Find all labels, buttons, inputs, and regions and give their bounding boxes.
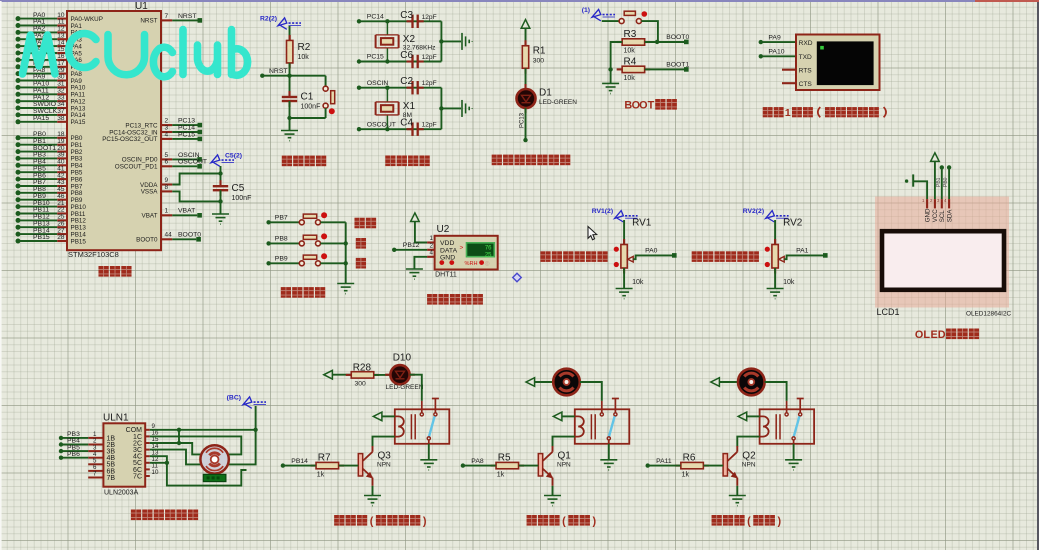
svg-text:): ) xyxy=(423,515,427,527)
node bus dot 2 xyxy=(344,261,348,265)
ground reset circuit xyxy=(281,131,298,141)
svg-text:PB1: PB1 xyxy=(936,177,942,187)
svg-text:8: 8 xyxy=(165,184,169,191)
U1 pin 18 (PB0) net PB0 wire xyxy=(16,131,83,142)
svg-text:(: ( xyxy=(370,515,374,527)
serial screen cursor xyxy=(820,46,824,50)
svg-text:R28: R28 xyxy=(353,363,372,374)
U1 pin 25 (PB12) net PB12 wire xyxy=(16,214,87,225)
wire relay common pin down xyxy=(608,444,610,460)
svg-text:): ) xyxy=(777,515,781,527)
transistor Q3 NPN xyxy=(358,446,373,486)
svg-text:VBAT: VBAT xyxy=(178,208,195,215)
ULN1 pin 13 (4C) xyxy=(133,449,159,460)
svg-text:300: 300 xyxy=(533,58,545,65)
U1 pin 17 (PA7) net PA7 wire xyxy=(16,60,83,71)
U1 pin 30 (PA9) net PA9 wire xyxy=(16,74,83,85)
svg-text:BOOT0: BOOT0 xyxy=(178,232,201,239)
wire PB14 to R7 xyxy=(283,465,316,467)
serial screen black area xyxy=(817,41,874,85)
caption reset circuit xyxy=(282,156,292,167)
wire button to BOOT0 rail xyxy=(641,21,658,42)
U1 pin 45 (PB8) net PB8 wire xyxy=(16,186,83,197)
ground Q3 xyxy=(364,496,381,506)
GND end bar symbol xyxy=(912,174,914,186)
ground Q2 xyxy=(729,496,746,506)
U1 pin 27 (PB14) net PB14 wire xyxy=(16,227,87,238)
wire button to bus xyxy=(320,242,345,244)
motor (vent) M2 xyxy=(738,369,765,396)
caption temperature humidity module xyxy=(427,294,437,305)
node SCL terminal dot xyxy=(940,165,944,169)
svg-text:NPN: NPN xyxy=(377,462,391,469)
svg-text:NRST: NRST xyxy=(178,13,197,20)
svg-text:STM32F103C8: STM32F103C8 xyxy=(68,250,119,259)
ULN1 pin 11 (6C) xyxy=(133,463,158,474)
wire button to bus xyxy=(320,221,345,223)
node C5 top junction xyxy=(218,171,222,175)
svg-text:Q2: Q2 xyxy=(742,450,756,461)
serial window VT terminal body xyxy=(796,35,880,91)
svg-text:>: > xyxy=(460,245,464,252)
wire R3 to BOOT0 terminal xyxy=(645,41,684,43)
relay coil xyxy=(395,416,404,436)
svg-text:U1: U1 xyxy=(135,1,148,12)
ULN1 pin 16 (1C) xyxy=(133,430,159,441)
wire motor 2 to relay pin xyxy=(765,382,787,401)
node PB8 dot xyxy=(266,241,270,245)
caption set xyxy=(354,218,364,229)
RV1 wiper arrow xyxy=(628,256,634,262)
svg-text:LED-GREEN: LED-GREEN xyxy=(539,99,577,106)
wire OLED VCC pin xyxy=(934,161,936,199)
U1 pin 34 (PA13) net SWDIO wire xyxy=(16,101,86,112)
svg-text:RV1: RV1 xyxy=(632,218,652,229)
power arrow DHT11 xyxy=(411,213,420,222)
serial pin stubs RTS CTS xyxy=(782,70,796,84)
svg-text:7: 7 xyxy=(93,471,97,478)
svg-text:(BC): (BC) xyxy=(227,395,241,402)
svg-text:R6: R6 xyxy=(683,453,696,464)
ground relay xyxy=(785,460,802,470)
U1 pin 1 (VBAT) xyxy=(142,208,202,220)
wire 1C to motor right-top xyxy=(150,436,242,454)
U1 pin 37 (PA14) net SWCLK wire xyxy=(16,108,86,119)
RV2 wiper arrow xyxy=(779,256,785,262)
wire arrow to R28 xyxy=(332,374,351,376)
wire R3 left vertical xyxy=(611,42,623,83)
svg-text:100nF: 100nF xyxy=(232,195,252,202)
svg-text:O: O xyxy=(639,99,647,111)
svg-text:R5: R5 xyxy=(498,453,511,464)
main chip U1 STM32F103C8 body xyxy=(67,11,161,250)
svg-text:NPN: NPN xyxy=(742,462,756,469)
window right edge line xyxy=(1037,2,1039,550)
svg-text:OSCOUT: OSCOUT xyxy=(178,159,207,166)
wire probe to RV1 xyxy=(623,220,625,245)
wire PC14 rail xyxy=(359,20,441,22)
svg-text:NRST: NRST xyxy=(269,68,288,75)
svg-text:PA11: PA11 xyxy=(656,458,672,465)
svg-text:PA9: PA9 xyxy=(768,34,781,41)
relay Q3 coil-switch box xyxy=(395,409,450,444)
ground BOOT circuit xyxy=(602,83,619,93)
svg-text:PB0: PB0 xyxy=(943,177,949,187)
svg-text:(: ( xyxy=(747,515,751,527)
caption crystal circuit xyxy=(385,155,395,166)
relay top contact pins xyxy=(787,399,804,413)
OLED screen frame xyxy=(882,231,1004,290)
RV2 red adjust dots xyxy=(765,247,770,252)
wire RV2 to ground xyxy=(774,268,776,289)
node 5C dot xyxy=(165,461,169,465)
ULN1 pin 14 (3C) xyxy=(133,443,159,454)
caption minus xyxy=(356,258,366,269)
U1 pin 28 (PB15) net PB15 wire xyxy=(16,234,87,245)
relay switch blade (cyan) xyxy=(609,416,615,436)
wire arrow to motor xyxy=(535,381,554,383)
svg-text:BOOT0: BOOT0 xyxy=(136,237,158,244)
svg-text:PA15: PA15 xyxy=(71,119,86,126)
U1 pin 16 (PA6) net PA6 wire xyxy=(16,53,83,64)
wire 2C to motor left-top xyxy=(150,443,201,454)
OLED pink module background xyxy=(875,197,1009,308)
push button PB7 xyxy=(299,212,327,225)
node PB7 dot xyxy=(266,220,270,224)
svg-text:1: 1 xyxy=(165,208,169,215)
U1 pin 3 (PC14-OSC32_IN) xyxy=(109,124,202,136)
svg-text:PC15-OSC32_OUT: PC15-OSC32_OUT xyxy=(102,136,157,143)
ULN1 pin 10 (7C) xyxy=(133,469,159,480)
terminal PA1 xyxy=(823,253,828,258)
svg-text:1: 1 xyxy=(430,235,434,242)
svg-text:6: 6 xyxy=(165,159,169,166)
svg-text:32.768KHz: 32.768KHz xyxy=(403,45,436,52)
svg-text:O: O xyxy=(915,329,923,341)
svg-text:R3: R3 xyxy=(624,29,637,40)
node PA11 dot xyxy=(646,463,650,467)
U1 pin 5 (OSCIN_PD0) xyxy=(122,152,202,164)
U1 pin 29 (PA8) net PA8 wire xyxy=(16,67,83,78)
transistor Q1 NPN xyxy=(538,446,553,486)
svg-text:PA0: PA0 xyxy=(645,248,658,255)
svg-text:R1: R1 xyxy=(533,46,546,57)
ULN1 pin 6 (6B) xyxy=(88,464,115,475)
svg-text:PA8: PA8 xyxy=(471,458,484,465)
ground RV1 xyxy=(616,289,633,299)
svg-text:R4: R4 xyxy=(624,57,637,68)
svg-text:PC13: PC13 xyxy=(520,112,526,128)
svg-text:10k: 10k xyxy=(624,75,636,82)
U1 pin 46 (PB9) net PB9 wire xyxy=(16,193,83,204)
svg-text:RV1(2): RV1(2) xyxy=(592,208,613,215)
relay Q1 coil-switch box xyxy=(575,409,630,444)
crystal X1 8M xyxy=(376,86,416,132)
wire button bus vertical xyxy=(345,222,347,283)
wire OLED GND pin xyxy=(913,181,927,199)
svg-text:DATA: DATA xyxy=(440,247,458,254)
bottom rail wire xyxy=(290,117,326,119)
caption serial window xyxy=(763,107,773,117)
svg-text:BOOT1: BOOT1 xyxy=(666,62,689,69)
U1 pin 43 (PB7) net PB7 wire xyxy=(16,179,83,190)
svg-text:PB15: PB15 xyxy=(33,234,50,241)
wire R4 to BOOT1 terminal xyxy=(645,68,684,70)
wire NRST to C1 xyxy=(289,76,291,96)
relay core lines xyxy=(776,414,780,439)
U1 pin 44 (BOOT0) xyxy=(136,232,201,244)
node PC15 dot xyxy=(357,59,361,63)
ULN1 pin 4 (4B) xyxy=(59,451,116,462)
wire arrow to coil xyxy=(562,415,575,417)
svg-text:PC15: PC15 xyxy=(178,131,195,138)
svg-text:Q3: Q3 xyxy=(378,450,392,461)
resistor R1 300 xyxy=(524,40,526,74)
svg-text:(1): (1) xyxy=(582,7,590,14)
wire C1 to bottom rail xyxy=(289,101,291,118)
svg-text:E: E xyxy=(931,329,938,341)
svg-text:C3: C3 xyxy=(400,10,413,21)
svg-text:4: 4 xyxy=(430,250,434,257)
ground (rotated) crystal xyxy=(462,100,472,117)
svg-text:RV2: RV2 xyxy=(783,218,803,229)
relay core lines xyxy=(411,414,415,439)
wire 3C to motor left-bottom xyxy=(150,450,201,465)
capacitor C4 12pF xyxy=(407,128,424,130)
node button-R3 junction xyxy=(655,40,659,44)
capacitor C5 xyxy=(219,180,221,196)
node right join dot xyxy=(439,106,443,110)
U1 pin 32 (PA11) net PA11 wire xyxy=(16,88,86,99)
U1 pin 7 (NRST) xyxy=(140,13,202,25)
wire PA11 to R6 xyxy=(648,465,681,467)
svg-text:BOOT0: BOOT0 xyxy=(666,34,689,41)
wire PA8 to R5 xyxy=(463,465,496,467)
wire probe to R2 xyxy=(289,26,291,41)
wire R6 to base xyxy=(704,465,724,467)
DHT11 U2 pin stubs xyxy=(427,243,435,257)
relay coil xyxy=(760,416,769,436)
U1 pin 42 (PB6) net PB6 wire xyxy=(16,172,83,183)
svg-text:4: 4 xyxy=(165,131,169,138)
svg-text:PC15: PC15 xyxy=(367,54,384,61)
svg-text:12pF: 12pF xyxy=(422,54,437,61)
DHT11 green LCD display xyxy=(467,243,495,259)
U1 pin 41 (PB5) net PB5 wire xyxy=(16,165,83,176)
left arrow terminal R28 xyxy=(324,370,333,379)
U1 pin 33 (PA12) net PA12 wire xyxy=(16,94,86,105)
svg-text:PB14: PB14 xyxy=(291,458,308,465)
window top border xyxy=(0,0,1039,2)
wire relay common pin down xyxy=(793,444,795,460)
capacitor C6 12pF xyxy=(407,60,424,62)
LED D10 LED-GREEN xyxy=(385,365,415,384)
resistor R2 xyxy=(289,35,291,68)
U1 pin 6 (OSCOUT_PD1) xyxy=(115,159,207,171)
svg-text:300: 300 xyxy=(355,381,367,388)
wire PB7 to button xyxy=(269,221,300,223)
wire C5 vertical top xyxy=(220,166,222,186)
U1 pin 40 (PB4) net PB4 wire xyxy=(16,159,83,170)
svg-text:10k: 10k xyxy=(298,54,310,61)
svg-text:SCL: SCL xyxy=(939,210,946,223)
wire arrow to coil xyxy=(382,415,395,417)
svg-text:PA15: PA15 xyxy=(33,115,49,122)
node PB12 dot xyxy=(392,248,396,252)
relay coil xyxy=(575,416,584,436)
wire 4C down to bottom rail xyxy=(150,456,247,485)
ground buttons xyxy=(337,284,354,294)
wire probe to button xyxy=(602,20,619,22)
U1 pin 20 (PB2) net BOOT1 wire xyxy=(16,145,83,156)
node PA10 dot xyxy=(759,54,763,58)
node PA8 dot xyxy=(461,463,465,467)
wire RV1 to ground xyxy=(623,268,625,289)
svg-text:OSCIN: OSCIN xyxy=(367,80,389,87)
svg-text:NRST: NRST xyxy=(140,18,157,25)
ULN1 pin 7 (7B) xyxy=(88,471,115,482)
U1 pin 38 (PA15) net PA15 wire xyxy=(16,115,86,126)
svg-text:PC14: PC14 xyxy=(367,14,384,21)
relay top contact pins xyxy=(602,399,619,413)
wire C5 to ground xyxy=(220,190,222,214)
relay Q2 coil-switch box xyxy=(760,409,815,444)
U1 pin 26 (PB13) net PB13 wire xyxy=(16,220,87,231)
svg-text:10k: 10k xyxy=(783,279,795,286)
wire coil bottom to transistor collector xyxy=(373,437,395,447)
ground Q1 xyxy=(544,496,561,506)
node SDA terminal dot xyxy=(947,165,951,169)
wire PB12 to DATA xyxy=(394,249,427,251)
svg-text:TXD: TXD xyxy=(799,54,812,61)
OLED module pin stubs (red) xyxy=(927,199,949,208)
wire COM bus xyxy=(150,429,256,431)
node right join dot xyxy=(439,39,443,43)
resistor R7 1k xyxy=(311,465,345,467)
node 2C crossing dot xyxy=(177,441,181,445)
DHT11 red adjust dots xyxy=(439,260,444,265)
U1 pin 13 (PA3) net PA3 wire xyxy=(16,32,83,43)
U1 pin 22 (PB11) net PB11 wire xyxy=(16,207,86,218)
U1 pin 15 (PA5) net PA5 wire xyxy=(16,46,83,57)
svg-text:7: 7 xyxy=(165,13,169,20)
caption 继电器(通风) xyxy=(712,515,722,526)
ground below C5 xyxy=(212,214,229,224)
wire button top xyxy=(325,76,327,87)
caption plus xyxy=(356,238,366,249)
svg-text:CTS: CTS xyxy=(799,81,813,88)
caption RV1 xyxy=(540,251,550,262)
svg-text:(: ( xyxy=(562,515,566,527)
relay core lines xyxy=(591,414,595,439)
wire R2 to NRST rail xyxy=(289,63,291,76)
terminal BOOT1 xyxy=(684,67,689,72)
svg-text:SDA: SDA xyxy=(946,209,953,223)
ULN2003A ULN1 body xyxy=(103,423,145,486)
logo MCUclub xyxy=(23,30,248,77)
svg-text:%RH: %RH xyxy=(465,261,478,267)
OLED tiny pin numbers xyxy=(922,198,947,203)
wire button to bus xyxy=(320,262,345,264)
svg-text:ULN2003A: ULN2003A xyxy=(104,490,139,497)
U1 pin 31 (PA10) net PA10 wire xyxy=(16,81,86,92)
wire arrow to motor 2 xyxy=(719,381,738,383)
wire D1 down xyxy=(525,108,527,140)
caption 继电器(音乐播放) xyxy=(334,515,344,526)
left arrow terminal to coil xyxy=(373,412,382,421)
wire PB8 to button xyxy=(269,242,300,244)
push button BOOT (horizontal) xyxy=(619,11,647,23)
RV1 wiper wire to PA0 xyxy=(633,255,672,259)
caption independent buttons xyxy=(281,287,291,298)
wire PA10 to serial xyxy=(761,55,796,57)
node bus dot 1 xyxy=(344,241,348,245)
svg-text:1k: 1k xyxy=(497,472,505,479)
wire PB9 to button xyxy=(269,262,300,264)
wire PC15 rail xyxy=(359,61,441,63)
wire motor to relay pin xyxy=(580,382,602,401)
power arrow above R1 xyxy=(521,20,530,29)
U1 pin 11 (PA1) net PA1 wire xyxy=(16,19,83,30)
caption main chip xyxy=(98,266,108,277)
wire crystal right join xyxy=(440,88,442,130)
caption stepper motor xyxy=(131,509,141,520)
svg-text:28: 28 xyxy=(57,234,65,241)
resistor R28 300 xyxy=(346,374,380,376)
stepper motor xyxy=(200,445,228,473)
svg-text:X2: X2 xyxy=(403,34,416,45)
svg-text:2: 2 xyxy=(430,243,434,250)
wire R1 to D1 xyxy=(525,68,527,89)
potentiometer RV1 body xyxy=(623,239,625,274)
wire OLED SCL pin xyxy=(941,169,943,199)
svg-text:PB9: PB9 xyxy=(275,256,288,263)
svg-text:100nF: 100nF xyxy=(301,104,321,111)
svg-text:10k: 10k xyxy=(624,48,636,55)
wire 5C short xyxy=(150,462,167,464)
node bottom junction dot xyxy=(287,116,291,120)
left arrow terminal motor 2 xyxy=(711,378,720,387)
wire R28 to D10 xyxy=(374,374,391,376)
wire power to R1 xyxy=(525,28,527,46)
caption run indicator LED xyxy=(492,155,502,166)
left arrow terminal to coil xyxy=(738,412,747,421)
svg-text:7B: 7B xyxy=(107,475,116,482)
U1 pin 2 (PC13_RTC) xyxy=(125,118,202,130)
svg-text:44: 44 xyxy=(165,232,173,239)
wire to side ground xyxy=(441,40,461,42)
node PB9 dot xyxy=(266,261,270,265)
wire arrow to coil xyxy=(747,415,760,417)
wire D10 to relay pin xyxy=(410,375,422,401)
svg-text:PA1: PA1 xyxy=(796,248,809,255)
wire COM right vertical to motor right-bottom xyxy=(229,430,256,465)
svg-text:OSCOUT: OSCOUT xyxy=(367,121,396,128)
wire PA9 to serial xyxy=(761,41,796,43)
svg-text:8M: 8M xyxy=(403,112,412,119)
ULN1 pin 12 (5C) xyxy=(133,456,159,467)
wire OSCOUT rail xyxy=(359,128,441,130)
svg-text:ULN1: ULN1 xyxy=(103,413,129,424)
svg-text:LED-GREEN: LED-GREEN xyxy=(386,384,424,391)
wire OLED SDA pin xyxy=(948,169,950,199)
node COM dot 2 xyxy=(253,428,257,432)
ground DHT11 xyxy=(406,269,423,279)
node R4 junction xyxy=(608,67,612,71)
RV2 wiper wire to PA1 xyxy=(784,255,823,259)
svg-text:PA10: PA10 xyxy=(768,49,784,56)
node PA9 dot xyxy=(759,40,763,44)
